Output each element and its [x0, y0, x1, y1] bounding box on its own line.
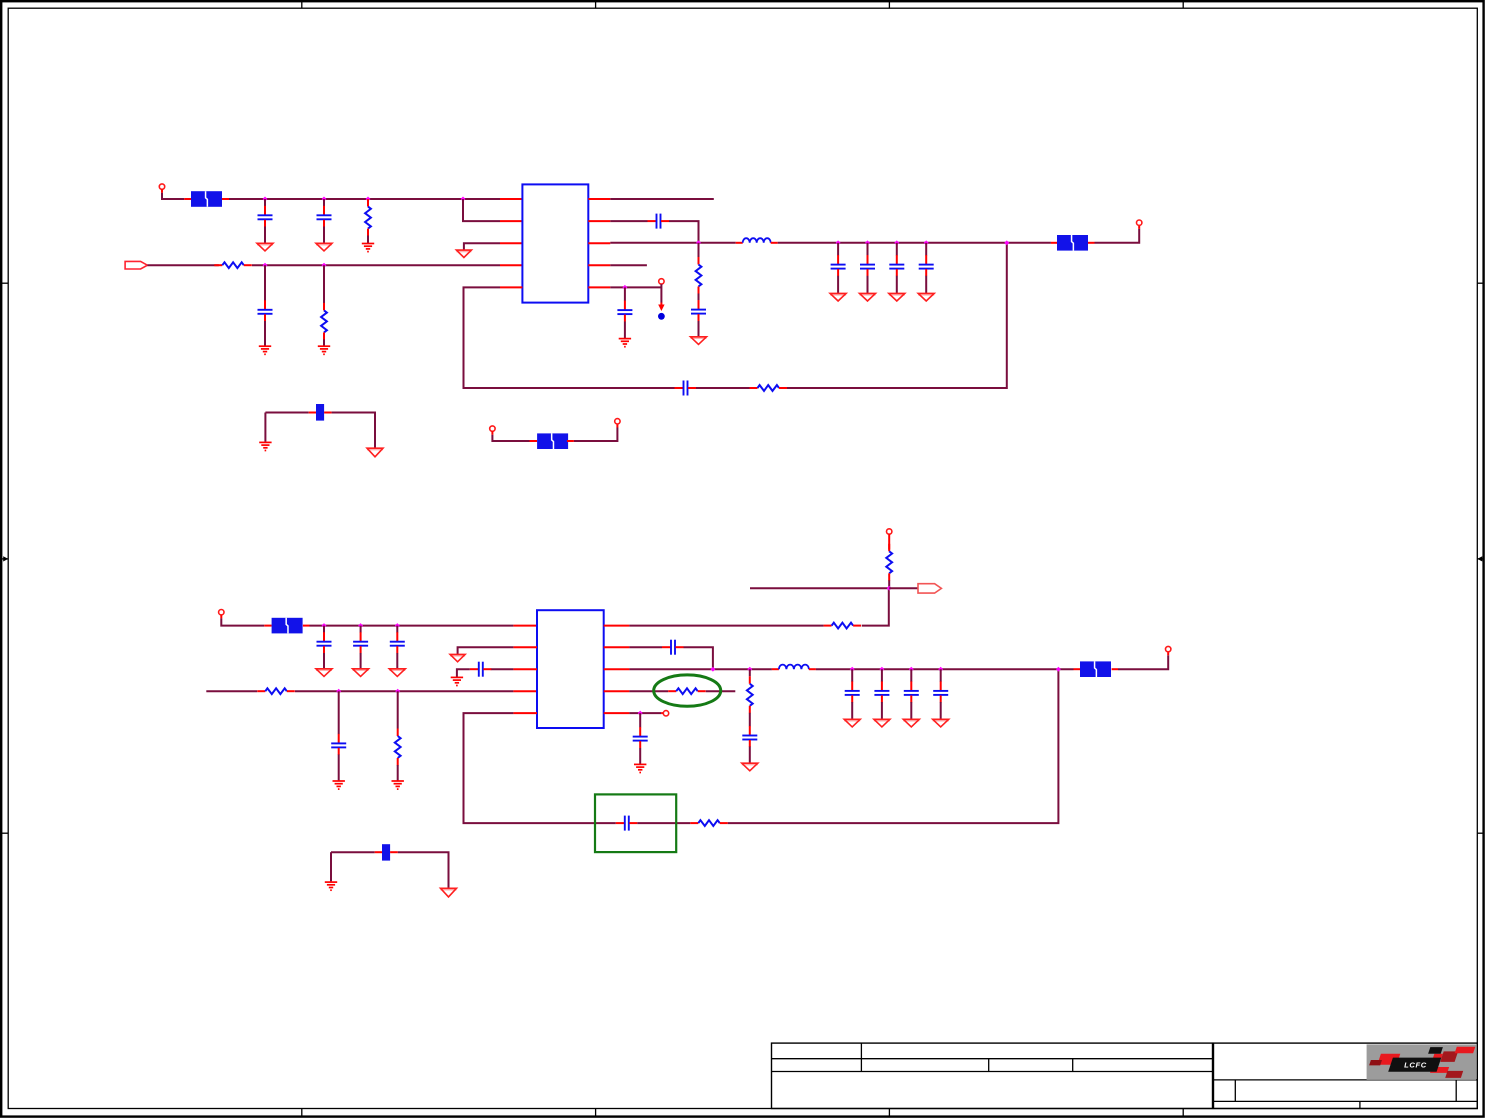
ground GND R1 [362, 244, 374, 252]
junction bottom cap bank x941 [938, 667, 943, 672]
wire rail drop to U1 pin B [463, 199, 500, 221]
resistor R4 (feedback series) [750, 385, 788, 391]
terminal J7 (enable pullup) [887, 529, 892, 534]
terminal J1 (top supply input) [159, 184, 164, 189]
LCFC logo [1367, 1044, 1477, 1080]
wire x398 down to R7 [397, 691, 399, 728]
resistor R7 [395, 729, 401, 766]
junction bottom rail x324 [322, 623, 327, 628]
wire R7 to ground [397, 765, 399, 781]
ground GND R7 [392, 781, 404, 789]
junction top rail x463 [461, 197, 466, 202]
port P1 (audio input left) [125, 261, 147, 269]
capacitor C1 [258, 206, 273, 227]
right edge zone tick marks [1477, 283, 1483, 833]
wire C15 to ground [338, 755, 340, 781]
junction top rail x324 [322, 197, 327, 202]
wire J1 to ferrite FB1 [161, 189, 163, 193]
wire C8 to ground [867, 276, 869, 294]
pin stub U1 pin A left [500, 198, 522, 200]
wire J3 to probe [660, 284, 662, 302]
wire rail to C1 [264, 199, 266, 206]
resistor R2 (series input) [214, 262, 252, 268]
pin stub U2 pin D right [604, 690, 630, 692]
resistor R1 [365, 199, 371, 236]
wire rail to cap x838.1 [837, 243, 839, 256]
wire x640 to C24 [639, 713, 641, 727]
bottom edge zone tick marks [302, 1109, 1183, 1116]
wire C6 to ground [698, 321, 700, 337]
wire enable node stub left [750, 587, 889, 589]
ground GND W2 left [325, 882, 337, 890]
junction enable node [887, 586, 892, 591]
wire rail to cap x926.2 [925, 243, 927, 256]
wire rail to cap x896.8 [896, 243, 898, 256]
wire C18 to output node [684, 647, 713, 669]
pin stub U2 pin E right [604, 712, 630, 714]
probe arrow marker [658, 303, 664, 312]
wire rail to C20 [851, 669, 853, 682]
wire FB2 to terminal J2 [1095, 229, 1140, 243]
junction bottom rail x361 [358, 623, 363, 628]
junction cap bank x838 [836, 240, 841, 245]
pin stub FB4 right [303, 625, 310, 627]
terminal J8 (speaker out bottom) [1166, 646, 1171, 651]
pin stub U1 pin C left [500, 242, 522, 244]
wire C12 to ground [323, 653, 325, 669]
wire x265 down to C3 [264, 265, 266, 300]
pin stub FB5 right [1112, 668, 1118, 670]
terminal J9 (sense tap bottom) [663, 711, 668, 716]
wire U2 pin D right to R12 [629, 690, 668, 692]
title block right table [1214, 1043, 1478, 1108]
capacitor C10 [919, 255, 934, 276]
wire L2 to cap bank [816, 668, 1074, 670]
pin stub U2 pin A left [513, 625, 537, 627]
capacitor C8 [860, 255, 875, 276]
wire R4 to rail riser [787, 243, 1007, 388]
wire bottom output rail [629, 668, 772, 670]
ground AGND C9 [889, 293, 905, 301]
wire U2 pin B to ground [458, 647, 514, 654]
ground GND W1 left [259, 442, 271, 450]
wire C10 to ground [925, 276, 927, 294]
jumper W1 (0 ohm link) [316, 404, 324, 421]
terminal J2 (speaker out top) [1137, 220, 1142, 225]
wire rail to C13 [360, 626, 362, 633]
wire C21 to ground [881, 702, 883, 719]
ground AGND C21 [874, 719, 890, 727]
wire input net to U1 pin D [252, 264, 500, 266]
ferrite bead FB4 [272, 618, 303, 634]
junction pin E right x640 [638, 711, 643, 716]
junction bottom input x398 [395, 689, 400, 694]
pin stub W2 left [375, 851, 382, 853]
ground AGND U2 pin B [450, 654, 465, 661]
capacitor C14 [390, 632, 405, 653]
resistor R8 (feedback series) [690, 820, 728, 826]
ferrite bead FB2 (output) [1057, 235, 1088, 251]
wire U1 pin B to C5 [610, 220, 647, 222]
ground AGND snubber bottom [742, 763, 758, 771]
wire C17 to R8 [637, 822, 690, 824]
pin stub U1 pin A right [588, 198, 610, 200]
ground AGND C12 [316, 669, 332, 677]
wire C4 to R4 [696, 387, 750, 389]
ground GND C24 [634, 764, 646, 772]
capacitor C7 [831, 255, 846, 276]
IC U2 amplifier [537, 610, 604, 728]
ground AGND W1 right [367, 448, 383, 457]
wire rail to C12 [323, 626, 325, 633]
wire FB3 to terminal J5 [574, 428, 618, 442]
pin stub U1 pin B right [588, 220, 610, 222]
inductor L1 (output filter) [736, 238, 778, 243]
wire C7 to ground [837, 276, 839, 294]
ground AGND snubber [691, 337, 707, 345]
junction cap bank x926 [924, 240, 929, 245]
pin stub FB1 right [222, 198, 229, 200]
wire R1 to ground [367, 236, 369, 244]
junction cap bank x868 [865, 240, 870, 245]
capacitor C12 [317, 632, 332, 653]
jumper W2 (0 ohm link) [382, 844, 390, 860]
ground AGND U1 pin C [456, 250, 471, 257]
wire W2 left to ground [330, 852, 332, 881]
wire C9 to ground [896, 276, 898, 294]
title block left table [772, 1043, 1213, 1108]
pin stub W2 right [390, 851, 398, 853]
wire enable node to port [889, 587, 918, 589]
wire C11 to ground [624, 322, 626, 339]
port P2 (enable output) [918, 584, 941, 593]
wire C23 to ground [940, 702, 942, 719]
wire R11 to C19 [749, 713, 751, 727]
IC U1 amplifier [522, 184, 588, 302]
pin stub FB4 left [264, 625, 271, 627]
capacitor C11 [617, 301, 632, 322]
pin stub U2 pin D left [513, 690, 537, 692]
junction bottom input x339 [336, 689, 341, 694]
left edge center arrow mark [2, 556, 9, 561]
ground AGND C23 [933, 719, 949, 727]
ground GND R3 [318, 346, 330, 354]
ground AGND C22 [903, 719, 919, 727]
resistor R10 (pullup) [886, 544, 892, 581]
wire junction to R5 [698, 243, 700, 257]
wire P1 to R2 [147, 264, 218, 266]
wire U2 pin A to R9 [629, 625, 823, 627]
wire C3 to ground [264, 321, 266, 346]
pin stub FB2 right [1088, 242, 1095, 244]
pin stub W1 right [324, 412, 332, 414]
capacitor C2 [317, 206, 332, 227]
resistor R9 (series) [824, 623, 862, 629]
junction input net x324 [322, 263, 327, 268]
ground GND U2 pin C [451, 677, 463, 685]
capacitor C13 [353, 632, 368, 653]
wire U2 pin C to C16 [491, 668, 514, 670]
terminal J6 (bottom supply input) [219, 610, 224, 615]
pin stub U1 pin D left [500, 264, 522, 266]
junction output node x698 [696, 240, 701, 245]
junction bottom rail x397 [395, 623, 400, 628]
wire FB5 to terminal J8 [1118, 655, 1168, 669]
capacitor C23 [933, 681, 948, 702]
wire R8 to rail riser [728, 669, 1059, 823]
wire C5 to output node [669, 221, 699, 243]
wire J6 to ferrite FB4 [220, 615, 222, 619]
terminal J4 (bead test left) [490, 426, 495, 431]
pin stub U2 pin B left [513, 646, 537, 648]
junction output node x713 [710, 667, 715, 672]
wire C14 to ground [396, 653, 398, 669]
svg-text:LCFC: LCFC [1404, 1060, 1427, 1069]
wire J7 to R10 [888, 534, 890, 549]
pin stub U2 pin E left [513, 712, 537, 714]
pin stub FB3 left [530, 440, 538, 442]
wire C2 to ground [323, 227, 325, 244]
wire junction to R11 [749, 669, 751, 676]
ground GND C15 [333, 781, 345, 789]
ground AGND C8 [860, 293, 876, 301]
node dot (blue probe target) [658, 313, 665, 320]
wire W1 left to ground [264, 413, 266, 442]
capacitor C4 (feedback series) [675, 381, 697, 396]
terminal J5 (bead test right) [615, 419, 620, 424]
ground AGND C2 [316, 243, 332, 251]
wire C19 to ground [749, 747, 751, 764]
resistor R3 [321, 303, 327, 340]
wire rail to C23 [940, 669, 942, 682]
wire x339 down to C15 [338, 691, 340, 734]
ground AGND C7 [830, 293, 846, 301]
wire U1 pin E right [610, 286, 661, 288]
wire L1 to cap bank [778, 242, 1051, 244]
wire x324 down to R3 [323, 265, 325, 303]
junction feedback return x1007 [1004, 240, 1009, 245]
capacitor C18 (bootstrap series) [662, 640, 684, 655]
wire bottom rail VDD [310, 625, 514, 627]
ferrite bead FB1 [191, 191, 222, 207]
ground AGND C10 [918, 293, 934, 301]
top edge zone tick marks [302, 2, 1183, 9]
wire U1 pin E feedback loop [464, 287, 675, 388]
wire U1 pin D right net stub [610, 264, 647, 266]
ground GND C3 [259, 346, 271, 354]
wire R10 to enable node [888, 580, 890, 588]
wire C22 to ground [910, 702, 912, 719]
wire U1 pin A right net stub [610, 198, 714, 200]
ground AGND C14 [389, 669, 405, 677]
wire jumper W1 right [332, 413, 375, 449]
capacitor C22 [904, 681, 919, 702]
left edge zone tick marks [2, 283, 9, 833]
wire rail to cap x867.5 [867, 243, 869, 256]
wire U2 pin E feedback loop [464, 713, 616, 823]
junction bottom feedback return [1056, 667, 1061, 672]
wire output rail [610, 242, 735, 244]
capacitor C21 [874, 681, 889, 702]
wire U2 pin B to C18 [629, 646, 662, 648]
wire R3 to ground [323, 339, 325, 346]
pin stub U2 pin C left [513, 668, 537, 670]
wire U1 pin C left to ground [464, 243, 500, 250]
capacitor C17 (feedback series) [616, 816, 638, 831]
pin stub FB2 left [1051, 242, 1057, 244]
highlight rectangle (green markup around C17) [595, 794, 676, 852]
capacitor C9 [889, 255, 904, 276]
pin stub U2 pin A right [604, 625, 630, 627]
wire input net to U2 pin D [295, 690, 513, 692]
ground AGND W2 right [441, 888, 457, 897]
resistor R11 (snubber) [747, 676, 753, 713]
pin stub U1 pin D right [588, 264, 610, 266]
junction snubber node x750 [747, 667, 752, 672]
resistor R5 (snubber) [696, 257, 702, 294]
capacitor C6 (snubber) [691, 300, 706, 321]
capacitor C24 [633, 727, 648, 748]
highlight ellipse (green markup around R12) [654, 675, 721, 706]
wire rail to C22 [910, 669, 912, 682]
wire C1 to ground [264, 227, 266, 244]
pin stub U1 pin E left [500, 286, 522, 288]
capacitor C16 (series) [470, 662, 492, 677]
wire R9 up to enable node [862, 588, 889, 625]
junction pin E right x625 [622, 285, 627, 290]
wire C20 to ground [851, 702, 853, 719]
pin stub U1 pin C right [588, 242, 610, 244]
pin stub FB3 right [567, 440, 574, 442]
wire bottom input net [206, 690, 257, 692]
wire U2 pin E right to J9 [629, 712, 661, 714]
wire top rail VDD [229, 198, 500, 200]
wire rail to C2 [323, 199, 325, 206]
junction top rail x265 [263, 197, 268, 202]
ground AGND C13 [353, 669, 369, 677]
ground GND C11 [619, 339, 631, 347]
wire jumper W2 right [398, 852, 449, 888]
resistor R12 (series) [668, 688, 706, 694]
wire jumper W2 left [331, 851, 375, 853]
pin stub U2 pin B right [604, 646, 630, 648]
terminal J3 (sense tap) [659, 279, 664, 284]
capacitor C15 [331, 734, 346, 755]
wire jumper W1 left [265, 412, 308, 414]
wire R5 to C6 [698, 294, 700, 301]
ground AGND C1 [257, 243, 273, 251]
pin stub U1 pin B left [500, 220, 522, 222]
wire rail to C21 [881, 669, 883, 682]
wire C13 to ground [360, 653, 362, 669]
wire R12 right net stub [706, 690, 736, 692]
pin stub U1 pin E right [588, 286, 610, 288]
ferrite bead FB3 [537, 433, 568, 449]
junction top rail x368 [366, 197, 371, 202]
pin stub FB5 left [1074, 668, 1081, 670]
resistor R6 (series input) [257, 688, 295, 694]
junction bottom cap bank x911 [909, 667, 914, 672]
capacitor C19 (snubber) [742, 726, 757, 747]
wire x625 to C11 [624, 287, 626, 301]
inductor L2 (output filter) [772, 665, 816, 670]
capacitor C5 (bootstrap series) [648, 214, 670, 229]
ferrite bead FB5 (output) [1080, 661, 1111, 677]
wire rail to C14 [396, 626, 398, 633]
right edge center arrow mark [1477, 556, 1483, 561]
pin stub U2 pin C right [604, 668, 630, 670]
junction bottom cap bank x882 [879, 667, 884, 672]
capacitor C20 [845, 681, 860, 702]
wire J4 to FB3 [491, 431, 493, 435]
wire C24 to ground [639, 748, 641, 764]
wire C16 to ground [457, 669, 470, 677]
capacitor C3 [258, 300, 273, 321]
junction bottom cap bank x852 [850, 667, 855, 672]
pin stub W1 left [309, 412, 316, 414]
junction cap bank x897 [894, 240, 899, 245]
junction input net x265 [263, 263, 268, 268]
ground AGND C20 [844, 719, 860, 727]
